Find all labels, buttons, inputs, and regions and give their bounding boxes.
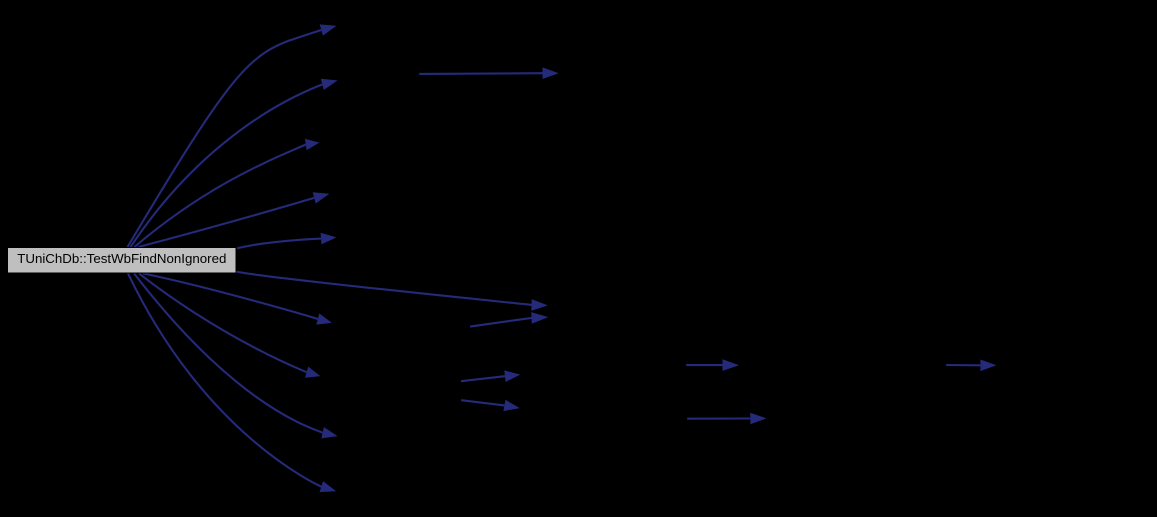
wire E5 arrowhead — [321, 233, 337, 245]
wire E16 shaft — [687, 417, 750, 419]
wire E2 arrowhead — [321, 79, 338, 90]
node TUniChDb::TestWbFindNonIgnored — [8, 248, 237, 274]
wire E10 arrowhead — [531, 299, 548, 311]
svg-text:TUniChDb::TestWbFindNonIgnored: TUniChDb::TestWbFindNonIgnored — [17, 251, 226, 266]
wire E9 shaft — [128, 273, 321, 486]
wire E6 shaft — [143, 273, 318, 319]
wire E12 shaft — [470, 318, 531, 327]
wire E14 shaft — [461, 400, 504, 405]
wire E15 arrowhead — [723, 359, 740, 371]
wire E15 shaft — [686, 364, 722, 366]
wire E7 arrowhead — [305, 367, 320, 378]
wire E5 shaft — [237, 239, 321, 249]
wire E11 arrowhead — [543, 67, 559, 79]
wire E17 shaft — [946, 364, 980, 366]
wire E2 shaft — [131, 84, 323, 247]
wire E4 shaft — [138, 198, 314, 247]
wire E16 arrowhead — [750, 413, 766, 425]
wire E12 arrowhead — [531, 312, 548, 324]
wire E6 arrowhead — [316, 313, 332, 324]
wire E13 shaft — [461, 376, 505, 381]
wire E14 arrowhead — [503, 400, 519, 411]
wire E9 arrowhead — [320, 481, 337, 492]
wire E11 shaft — [419, 72, 542, 75]
wire E1 arrowhead — [320, 24, 337, 35]
wire E8 shaft — [134, 273, 323, 432]
wire E17 arrowhead — [980, 360, 996, 372]
wire E7 shaft — [139, 273, 307, 372]
wire E3 shaft — [134, 145, 305, 248]
wire E3 arrowhead — [305, 139, 319, 150]
wire E1 shaft — [128, 30, 322, 247]
wire E10 shaft — [236, 272, 532, 305]
wire E8 arrowhead — [321, 427, 337, 438]
wire E4 arrowhead — [313, 192, 330, 203]
wire E13 arrowhead — [504, 370, 520, 382]
